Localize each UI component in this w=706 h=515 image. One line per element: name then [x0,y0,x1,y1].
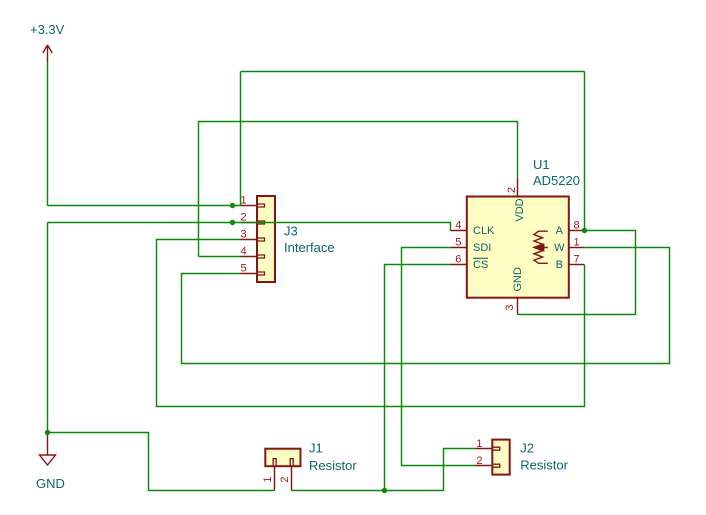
J2 pin 2 [476,455,493,467]
svg-text:+3.3V: +3.3V [30,22,65,37]
wire second run to J3 pin 4 [199,256,241,258]
svg-text:GND: GND [512,267,524,292]
svg-text:3: 3 [240,229,246,241]
J3 pin 2 [240,212,257,224]
U1 pin 1 W [554,236,584,254]
svg-text:Resistor: Resistor [520,458,568,473]
U1 pin 7 B [556,253,585,271]
svg-text:SDI: SDI [473,242,491,254]
svg-text:B: B [556,259,563,271]
svg-text:1: 1 [476,438,482,450]
U1 pin 2 VDD (top) [506,179,526,222]
svg-text:4: 4 [240,246,246,258]
IC U1 AD5220 digital potentiometer body [467,197,569,298]
wire GND to bottom rail [48,433,275,491]
svg-text:5: 5 [455,236,461,248]
svg-text:1: 1 [240,195,246,207]
wire bottom rail J1 pin2 to J2 pin1 [292,449,476,491]
J1 pin 1 [262,466,275,490]
junction at GND [45,430,50,435]
svg-text:3: 3 [504,304,516,310]
wire J3 pin5 to U1 pin W [182,248,670,364]
svg-text:2: 2 [476,455,482,467]
wire GND net vertical [47,223,49,433]
svg-text:5: 5 [240,263,246,275]
J3 pin 4 [240,246,257,258]
U1 potentiometer glyph [534,231,548,263]
junction on bottom rail [382,488,387,493]
connector J2 pin notches [493,447,500,467]
wire J3 pin3 to U1 pin B [157,240,585,407]
J3 pin 3 [240,229,257,241]
wire J3 pin1 riser [240,72,242,206]
power symbol +3.3V [30,22,65,62]
wire U1 SDI to J2 pin 2 [402,248,476,466]
wire drop to U1 pin A [584,72,586,231]
svg-text:J1: J1 [309,441,323,456]
svg-text:8: 8 [573,219,579,231]
junction on J3 pin 1 net [230,203,235,208]
svg-text:U1: U1 [533,157,550,172]
svg-text:4: 4 [455,219,461,231]
svg-text:CS: CS [473,259,488,271]
U1 pin 5 SDI [451,236,492,254]
connector J1 body [265,449,300,467]
svg-text:J2: J2 [520,441,534,456]
J2 pin 1 [476,438,493,450]
U1 pin 4 CLK [451,219,496,237]
svg-text:J3: J3 [284,224,298,239]
connector J2 body [492,440,509,475]
wire top run [241,71,585,73]
wire U1 CS drop [385,265,451,491]
wire second run to VDD [199,122,518,257]
junction on U1 pin A net [582,228,587,233]
svg-text:A: A [556,225,564,237]
svg-text:W: W [554,242,565,254]
U1 pin 3 GND (bottom) [504,267,524,314]
J1 pin 2 [279,466,291,490]
svg-text:Resistor: Resistor [309,458,357,473]
junction on J3 pin 2 net [230,220,235,225]
svg-text:VDD: VDD [514,198,526,221]
U1 pin 6 CS (active low) [451,253,489,271]
wire +3.3V to J3 pin 1 [48,205,241,207]
svg-text:CLK: CLK [473,225,495,237]
svg-text:1: 1 [262,476,274,482]
svg-text:2: 2 [506,187,518,193]
wire U1 GND loop to pin A [518,231,636,315]
connector J3 pin notches [258,204,265,275]
svg-text:6: 6 [455,253,461,265]
svg-text:7: 7 [573,253,579,265]
svg-text:2: 2 [279,477,291,483]
wire +3.3V vertical drop [47,62,49,206]
J3 pin 1 [240,195,257,207]
J3 pin 5 [240,263,257,275]
svg-text:1: 1 [573,236,579,248]
wire J3 pin2 long run to CLK [48,223,451,231]
svg-text:GND: GND [36,476,65,491]
svg-text:AD5220: AD5220 [533,173,580,188]
ground symbol GND [36,435,65,491]
connector J3 body [257,196,275,282]
svg-text:Interface: Interface [284,240,335,255]
U1 pin 8 A [556,219,585,237]
connector J1 pin notches [273,459,293,466]
